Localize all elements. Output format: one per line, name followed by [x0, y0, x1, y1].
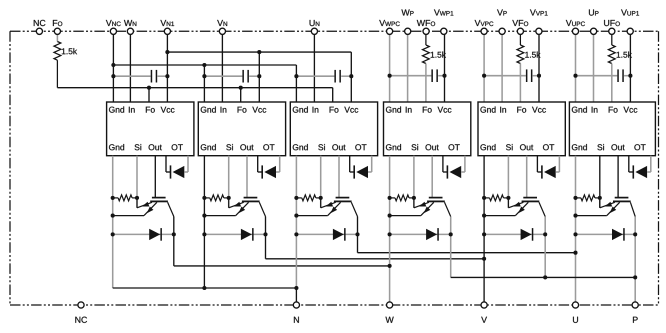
- wire Out gate line (cell 6): [617, 156, 619, 198]
- junction C6 right: [628, 74, 632, 78]
- wire UN input vertical to IC3 In: [313, 35, 315, 103]
- terminal WP: [401, 9, 413, 34]
- junction R1 left on emitter line: [111, 196, 115, 200]
- terminal VNC: [106, 20, 121, 34]
- junction C1 left: [111, 74, 115, 78]
- wire emitter of Q4 (W upper) to Gnd line: [390, 215, 421, 217]
- terminal NC: [34, 20, 46, 35]
- junction R1 right on Si line: [135, 196, 139, 200]
- junction emitter wire on Gnd line (cell 6): [573, 214, 577, 218]
- resistor gate/sense R2: [204, 195, 228, 201]
- junction R5 left on emitter line: [482, 196, 486, 200]
- junction D2 cathode: [263, 232, 267, 236]
- wire Si sense line (cell 6): [599, 156, 601, 208]
- junction D3 cathode: [355, 232, 359, 236]
- wire Si sense line (cell 2): [228, 156, 230, 208]
- terminal WFO: [417, 20, 435, 34]
- capacitor C6 (IC6 supply decoupling): [576, 69, 631, 82]
- junction D4 cathode: [449, 232, 453, 236]
- junction Fo bus at IC1 Fo: [147, 86, 151, 90]
- diode OT sensor (cell 3): [350, 156, 372, 179]
- junction N bus at IC2 emitter: [202, 286, 206, 290]
- wire IC4 Gnd/emitter vertical to W terminal: [389, 156, 391, 302]
- wire emitter of Q6 (U upper) to Gnd line: [576, 215, 607, 217]
- junction D6 cathode: [633, 232, 637, 236]
- resistor gate/sense R5: [484, 195, 508, 201]
- capacitor C2 (IC2 supply decoupling): [204, 70, 259, 83]
- wire Out gate line (cell 2): [246, 156, 248, 198]
- terminal V (bottom): [481, 302, 487, 323]
- junction D1 anode: [111, 232, 115, 236]
- junction emitter wire on Gnd line (cell 1): [111, 214, 115, 218]
- wire bottom chain border line: [10, 304, 659, 306]
- wire collector Q1 to W phase line: [174, 217, 390, 266]
- junction Vcc bus at VN1 line: [165, 50, 169, 54]
- junction R5 right on Si line: [506, 196, 510, 200]
- junction emitter wire on Gnd line (cell 2): [202, 214, 206, 218]
- resistor 1.5k (UFO pull-up): [608, 35, 615, 103]
- junction R6 left on emitter line: [573, 196, 577, 200]
- op-amp U3 driver IC (U-phase N-side): [290, 102, 377, 156]
- wire IC3 Gnd/emitter vertical to N: [295, 156, 297, 302]
- transistor Q5 (V upper) IGBT with sense emitter: [508, 197, 545, 217]
- junction W phase line at W vertical: [388, 264, 392, 268]
- wire Fo bus (resistor to IC1/IC2/IC3 Fo): [57, 88, 332, 102]
- diode D4 free-wheel: [390, 228, 451, 241]
- junction R3 left on emitter line: [294, 196, 298, 200]
- terminal UP: [589, 9, 599, 34]
- wire Gnd bus (VNC to IC2/IC3 Gnd): [113, 65, 296, 102]
- junction D2 anode: [202, 232, 206, 236]
- wire N emitter bus: [113, 287, 297, 289]
- wire IC1 Gnd/emitter vertical: [112, 156, 114, 288]
- junction Gnd bus at IC2 Gnd: [202, 63, 206, 67]
- junction C5 left: [482, 74, 486, 78]
- junction D3 anode: [294, 232, 298, 236]
- capacitor C5 (IC5 supply decoupling): [484, 69, 539, 82]
- resistor 1.5k (N-side Fo pull-up): [54, 35, 61, 88]
- terminal VVPC: [475, 20, 494, 34]
- terminal VUPC: [566, 20, 585, 34]
- junction R3 right on Si line: [319, 196, 323, 200]
- wire Out gate line (cell 4): [431, 156, 433, 198]
- junction emitter wire on Gnd line (cell 5): [482, 214, 486, 218]
- junction emitter wire on Gnd line (cell 4): [388, 214, 392, 218]
- diode D6 free-wheel: [576, 228, 636, 241]
- wire Out gate line (cell 3): [338, 156, 340, 198]
- terminal NC (bottom): [75, 302, 87, 323]
- terminal VWP1: [434, 9, 453, 34]
- junction R4 right on Si line: [412, 196, 416, 200]
- diode OT sensor (cell 5): [537, 156, 559, 179]
- label 1.5k (U-phase): [617, 52, 632, 58]
- junction C1 right: [165, 74, 169, 78]
- junction C2 left: [202, 74, 206, 78]
- junction R2 right on Si line: [227, 196, 231, 200]
- junction D5 cathode: [543, 232, 547, 236]
- label 1.5k (N-side): [62, 48, 77, 54]
- wire emitter of Q3 (U lower) to Gnd line: [296, 215, 327, 217]
- diode D2 free-wheel: [204, 228, 265, 241]
- diode OT sensor (cell 6): [629, 156, 651, 179]
- wire VUPC supply vertical to IC6 Gnd: [575, 35, 577, 103]
- junction P rail at Q5 collector: [543, 275, 547, 279]
- op-amp U6 driver IC (U-phase P-side): [569, 102, 655, 156]
- wire top chain border line: [10, 30, 659, 32]
- wire collector Q5 (V upper) down to P rail: [544, 217, 546, 278]
- wire Si sense line (cell 1): [136, 156, 138, 208]
- terminal VUP1: [621, 9, 639, 34]
- junction D5 anode: [482, 232, 486, 236]
- wire WN input vertical to IC1 In: [129, 35, 131, 103]
- wire right chain border line: [658, 31, 660, 305]
- wire collector Q4 (W upper) down to P rail: [450, 217, 452, 278]
- junction D1 cathode: [172, 232, 176, 236]
- wire P collector rail: [451, 276, 636, 278]
- terminal U (bottom): [572, 302, 578, 323]
- junction V phase line at V vertical: [482, 257, 486, 261]
- transistor Q6 (U upper) IGBT with sense emitter: [600, 197, 635, 217]
- terminal FO: [53, 20, 62, 34]
- diode OT sensor (cell 1): [166, 156, 188, 179]
- wire emitter of Q5 (V upper) to Gnd line: [484, 215, 515, 217]
- diode D5 free-wheel: [484, 228, 545, 241]
- diode OT sensor (cell 2): [258, 156, 280, 179]
- terminal VFO: [512, 20, 528, 34]
- transistor Q1 (W lower) IGBT with sense emitter: [137, 197, 174, 217]
- wire collector Q6 (U upper) down to P rail: [634, 217, 636, 302]
- resistor gate/sense R3: [296, 195, 320, 201]
- transistor Q4 (W upper) IGBT with sense emitter: [414, 197, 451, 217]
- capacitor C1 (IC1 supply decoupling): [113, 70, 167, 83]
- wire VWP1 supply vertical to IC4 Vcc: [444, 35, 446, 103]
- wire Si sense line (cell 5): [507, 156, 509, 208]
- junction C2 right: [257, 74, 261, 78]
- junction C4 left: [388, 74, 392, 78]
- wire IC1 Fo stub: [148, 88, 150, 102]
- resistor gate/sense R6: [576, 195, 600, 201]
- op-amp U2 driver IC (V-phase N-side): [198, 102, 285, 156]
- wire collector Q3 to U phase line: [358, 217, 576, 253]
- wire left chain border line: [9, 31, 11, 305]
- junction emitter wire on Gnd line (cell 3): [294, 214, 298, 218]
- wire emitter of Q2 (V lower) to Gnd line: [204, 215, 235, 217]
- terminal VWPC: [379, 20, 400, 34]
- capacitor C3 (IC3 supply decoupling): [296, 70, 351, 83]
- wire UP input vertical to IC6 In: [593, 35, 595, 103]
- terminal P (bottom): [632, 302, 638, 323]
- wire IC2 Vcc stub: [258, 52, 260, 102]
- junction N bus at IC3 emitter: [294, 286, 298, 290]
- wire Out gate line (cell 1): [154, 156, 156, 198]
- wire VN input vertical to IC2 In: [221, 35, 223, 103]
- junction C5 right: [537, 74, 541, 78]
- wire Out gate line (cell 5): [526, 156, 528, 198]
- wire VVPC supply vertical to IC5 Gnd: [483, 35, 485, 103]
- label 1.5k (W-phase): [431, 52, 446, 58]
- wire VVP1 supply vertical to IC5 Vcc: [538, 35, 540, 103]
- wire IC5 Gnd/emitter vertical to V terminal: [483, 156, 485, 302]
- wire VWPC supply vertical to IC4 Gnd: [389, 35, 391, 103]
- transistor Q3 (U lower) IGBT with sense emitter: [321, 197, 358, 217]
- terminal VN: [217, 20, 227, 34]
- junction Vcc bus at IC2 Vcc: [257, 50, 261, 54]
- wire Vcc bus (VN1 to IC2/IC3 Vcc): [167, 52, 351, 102]
- resistor 1.5k (WFO pull-up): [423, 35, 430, 103]
- terminal N (bottom): [293, 302, 299, 323]
- op-amp U1 driver IC (W-phase N-side): [107, 102, 194, 156]
- op-amp U5 driver IC (V-phase P-side): [478, 102, 565, 156]
- diode D3 free-wheel: [296, 228, 357, 241]
- junction C3 left: [294, 74, 298, 78]
- wire collector Q2 to V phase line: [266, 217, 485, 259]
- wire IC2 Gnd stub: [203, 65, 205, 102]
- wire VNC supply vertical to IC1 Gnd: [112, 35, 114, 103]
- wire VUP1 supply vertical to IC6 Vcc: [629, 35, 631, 103]
- junction C6 left: [573, 74, 577, 78]
- wire IC6 Gnd/emitter vertical to U terminal: [575, 156, 577, 302]
- resistor 1.5k (VFO pull-up): [517, 35, 524, 103]
- terminal VVP1: [530, 9, 548, 34]
- junction R2 left on emitter line: [202, 196, 206, 200]
- label 1.5k (V-phase): [525, 52, 540, 58]
- terminal WN: [124, 20, 136, 34]
- wire Si sense line (cell 3): [320, 156, 322, 208]
- junction C3 right: [349, 74, 353, 78]
- junction R6 right on Si line: [598, 196, 602, 200]
- diode D1 free-wheel: [113, 228, 174, 241]
- capacitor C4 (IC4 supply decoupling): [390, 69, 445, 82]
- wire WP input vertical to IC4 In: [407, 35, 409, 103]
- wire IC2 Fo stub: [240, 88, 242, 102]
- diode OT sensor (cell 4): [443, 156, 465, 179]
- wire Si sense line (cell 4): [413, 156, 415, 208]
- terminal UN: [310, 20, 320, 34]
- wire emitter of Q1 (W lower) to Gnd line: [113, 215, 144, 217]
- wire VP input vertical to IC5 In: [501, 35, 503, 103]
- junction D4 anode: [388, 232, 392, 236]
- resistor gate/sense R1: [113, 195, 137, 201]
- junction Fo bus at IC2 Fo: [239, 86, 243, 90]
- junction R4 left on emitter line: [388, 196, 392, 200]
- wire IC2 Gnd/emitter vertical: [203, 156, 205, 288]
- junction U phase line at U vertical: [573, 251, 577, 255]
- junction C4 right: [442, 74, 446, 78]
- resistor gate/sense R4: [390, 195, 414, 201]
- op-amp U4 driver IC (W-phase P-side): [384, 102, 471, 156]
- wire VN1 supply vertical to IC1 Vcc: [166, 35, 168, 103]
- transistor Q2 (V lower) IGBT with sense emitter: [229, 197, 266, 217]
- junction D6 anode: [573, 232, 577, 236]
- terminal UFO: [604, 20, 620, 34]
- terminal VP: [497, 9, 507, 34]
- terminal VN1: [160, 20, 174, 34]
- junction Gnd bus at VNC line: [111, 63, 115, 67]
- junction P rail at Q6 collector: [633, 275, 637, 279]
- terminal W (bottom): [385, 302, 393, 323]
